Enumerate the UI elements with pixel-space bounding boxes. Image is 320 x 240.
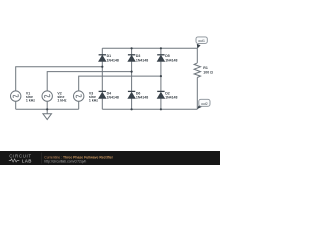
voltage source V2 [42, 91, 52, 101]
svg-text:100 Ω: 100 Ω [203, 71, 213, 75]
svg-text:LAB: LAB [22, 158, 32, 163]
wire right rail lower (resistor to bus) [196, 78, 198, 110]
footer bar [0, 151, 220, 165]
wire column 3 vertical [160, 48, 162, 109]
wire source bottoms to neutral bus [16, 101, 79, 109]
diode D6 [128, 91, 135, 98]
wire column 2 vertical [131, 48, 133, 109]
footer divider [40, 153, 42, 164]
footer CircuitLab logo [9, 153, 32, 163]
svg-text:1N4148: 1N4148 [136, 96, 148, 100]
diode D3 [128, 55, 135, 62]
node junction dots [46, 47, 162, 110]
svg-text:D1: D1 [107, 54, 112, 58]
node out1 [196, 37, 207, 49]
diode D5 [157, 55, 164, 62]
svg-text:http://circuitlab.com/c/72qvh: http://circuitlab.com/c/72qvh [44, 160, 86, 164]
wire neutral bus [16, 108, 79, 110]
svg-text:1N4148: 1N4148 [107, 96, 119, 100]
svg-text:1N4148: 1N4148 [165, 59, 177, 63]
node out2 [197, 99, 210, 109]
wire phase B from V2 to column 2 [47, 72, 131, 91]
svg-text:1 kHz: 1 kHz [89, 99, 98, 103]
svg-text:1 kHz: 1 kHz [26, 99, 35, 103]
svg-text:out2: out2 [201, 102, 208, 106]
ground [43, 109, 52, 119]
svg-text:R1: R1 [203, 66, 208, 70]
svg-text:1 kHz: 1 kHz [57, 99, 66, 103]
svg-text:out1: out1 [198, 39, 205, 43]
wire column 1 vertical [101, 48, 103, 109]
voltage source V1 [11, 91, 21, 101]
wire top bus out1 rail [102, 47, 197, 49]
svg-text:D5: D5 [165, 54, 170, 58]
wire phase A from V1 to column 1 [16, 67, 103, 91]
diode D1 [99, 55, 106, 62]
svg-text:D3: D3 [136, 54, 141, 58]
wire phase C from V3 to column 3 [79, 76, 161, 91]
resistor R1 [194, 63, 200, 78]
svg-text:1N4148: 1N4148 [165, 96, 177, 100]
svg-text:1N4148: 1N4148 [136, 59, 148, 63]
diode D4 [99, 91, 106, 98]
wire bottom bus out2 rail [102, 108, 197, 110]
voltage source V3 [74, 91, 84, 101]
svg-text:1N4148: 1N4148 [107, 59, 119, 63]
diode D2 [157, 91, 164, 98]
wire right rail upper (bus to resistor) [196, 48, 198, 63]
